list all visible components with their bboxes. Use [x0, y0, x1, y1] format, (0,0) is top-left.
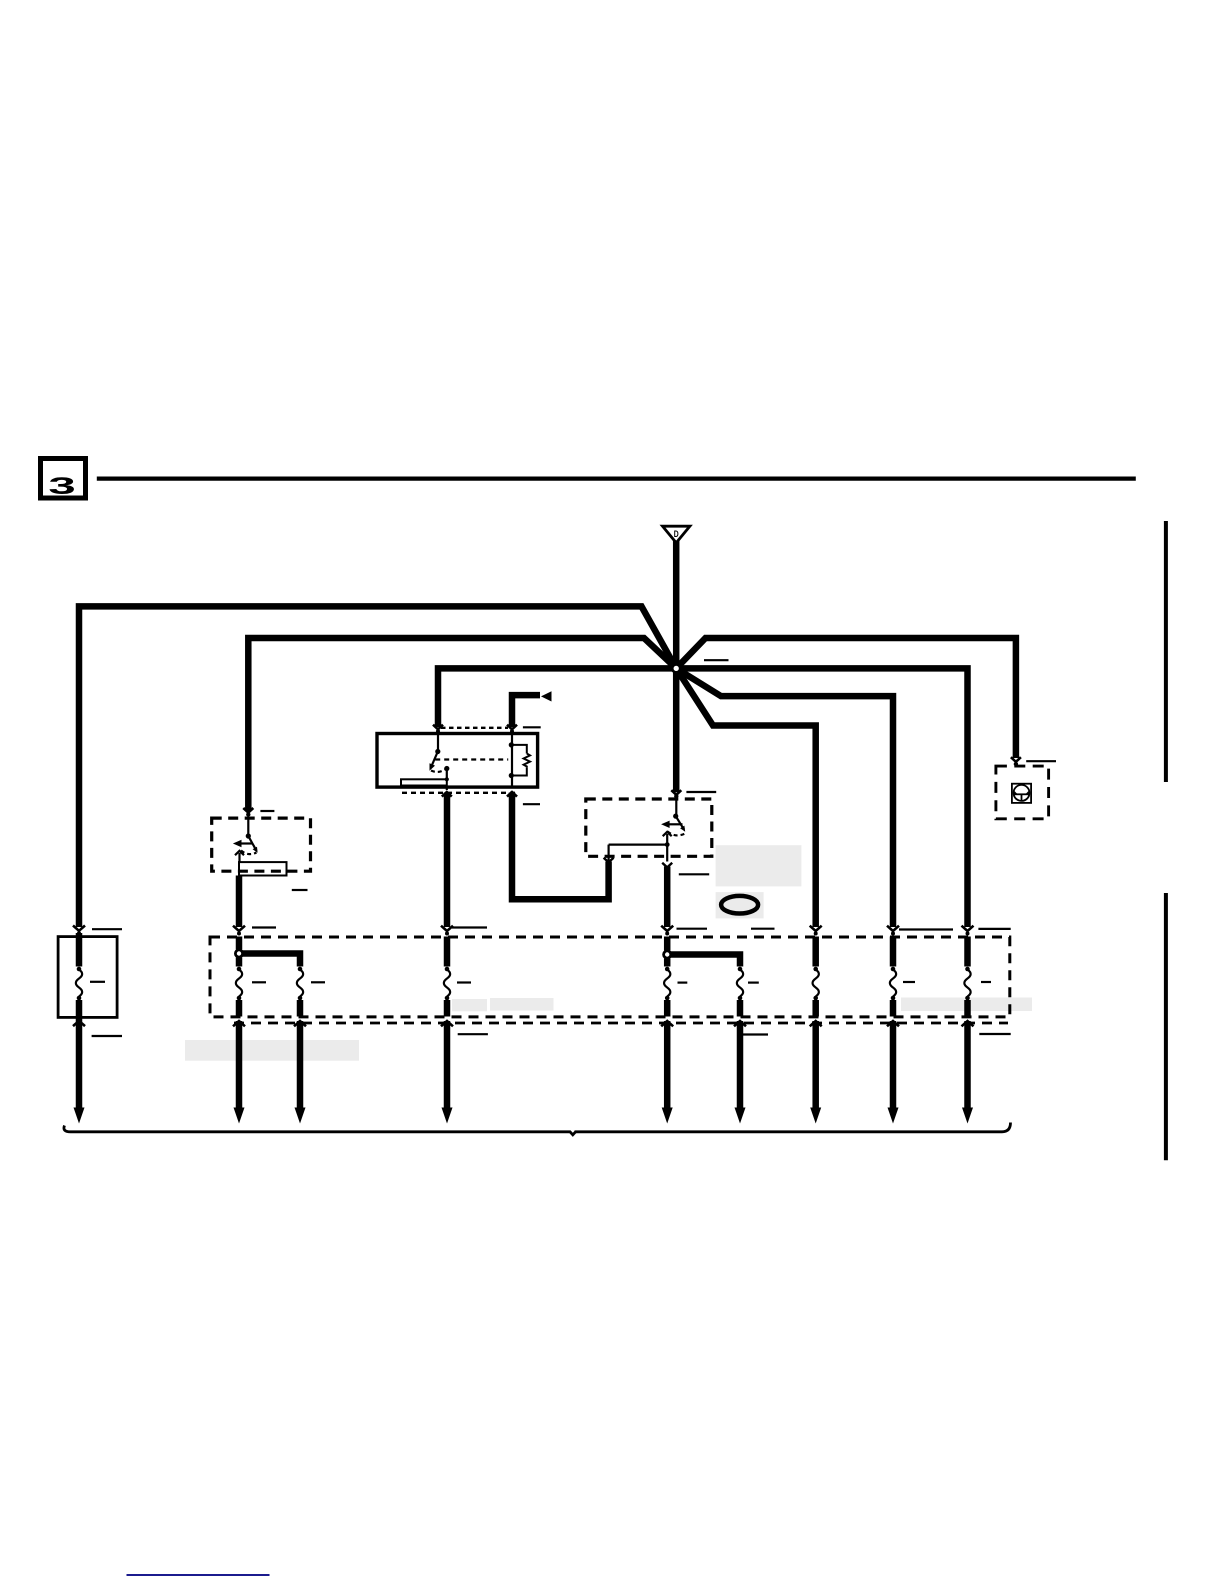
- svg-text:D: D: [674, 529, 679, 539]
- svg-text:3: 3: [48, 473, 75, 500]
